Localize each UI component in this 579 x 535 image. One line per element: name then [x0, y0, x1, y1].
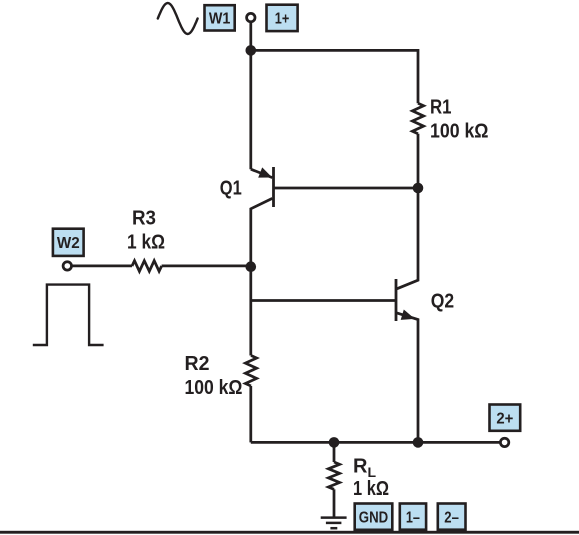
terminal W2 (open circle): [63, 262, 71, 270]
label 1-: [400, 504, 426, 530]
sine wave symbol (W1 source): [158, 3, 198, 34]
transistor Q2 emitter lead: [397, 313, 418, 443]
svg-text:1–: 1–: [406, 509, 420, 526]
label GND: [355, 504, 393, 530]
terminal W1/1+ (open circle): [247, 13, 255, 21]
wire: rail down to RL: [333, 442, 336, 462]
label W1: [205, 5, 235, 30]
Q1 emitter arrow (PNP, points to bar): [258, 167, 272, 177]
svg-text:100 kΩ: 100 kΩ: [185, 377, 243, 399]
wire: R2 bottom to ground rail: [249, 386, 252, 442]
wire: bottom rail: [251, 441, 500, 444]
pulse waveform symbol (W2 source): [33, 285, 104, 345]
wire: R1 bottom to base node: [417, 134, 420, 188]
resistor R2: [245, 356, 256, 387]
wire: top rail from node to R1: [251, 50, 418, 103]
svg-text:100 kΩ: 100 kΩ: [430, 121, 489, 143]
wire: Q1 base to node: [274, 187, 419, 190]
svg-text:W1: W1: [209, 11, 231, 28]
svg-text:2–: 2–: [444, 509, 459, 526]
svg-text:2+: 2+: [496, 411, 513, 428]
resistor R3: [132, 261, 162, 272]
svg-text:1+: 1+: [275, 11, 290, 28]
transistor Q2 collector lead: [397, 188, 418, 289]
svg-text:Q2: Q2: [431, 290, 454, 312]
resistor RL: [328, 462, 339, 489]
svg-text:1 kΩ: 1 kΩ: [353, 478, 389, 500]
wire: Q2 base to vertical: [251, 299, 396, 302]
node: input junction (R3 / Q1 collector / R2): [246, 261, 257, 272]
svg-text:W2: W2: [57, 235, 80, 252]
transistor Q1 (PNP) bar: [272, 167, 275, 207]
wire: W1 terminal down to Q1 emitter: [249, 22, 252, 169]
wire: W2 terminal to R3: [72, 265, 132, 268]
svg-text:R1: R1: [430, 97, 452, 119]
ground: [321, 516, 347, 519]
svg-text:Q1: Q1: [220, 178, 242, 200]
label 1+: [267, 5, 298, 31]
transistor Q1 collector lead: [251, 198, 272, 266]
node: Q2 emitter junction: [413, 437, 424, 448]
svg-text:R3: R3: [132, 208, 156, 230]
wire: R3 to input node: [162, 265, 251, 268]
terminal 2+ (open circle): [500, 438, 508, 446]
Q2 emitter arrow (NPN, points away from bar): [401, 310, 415, 320]
label 2-: [438, 504, 466, 530]
transistor Q2 (NPN) bar: [395, 279, 398, 321]
svg-text:R2: R2: [185, 353, 210, 375]
wire: input node down to R2: [249, 267, 252, 356]
node: Q1 base / Q2 collector junction: [413, 183, 424, 194]
bottom border line: [0, 531, 579, 534]
resistor R1: [412, 103, 423, 133]
node: top junction: [246, 45, 257, 56]
wire: RL to ground: [333, 489, 336, 517]
svg-text:GND: GND: [359, 509, 388, 526]
label 2+: [490, 405, 521, 431]
transistor Q1 emitter lead: [251, 169, 272, 177]
label W2: [53, 229, 84, 256]
svg-text:1 kΩ: 1 kΩ: [127, 232, 165, 254]
node: RL junction: [329, 437, 340, 448]
